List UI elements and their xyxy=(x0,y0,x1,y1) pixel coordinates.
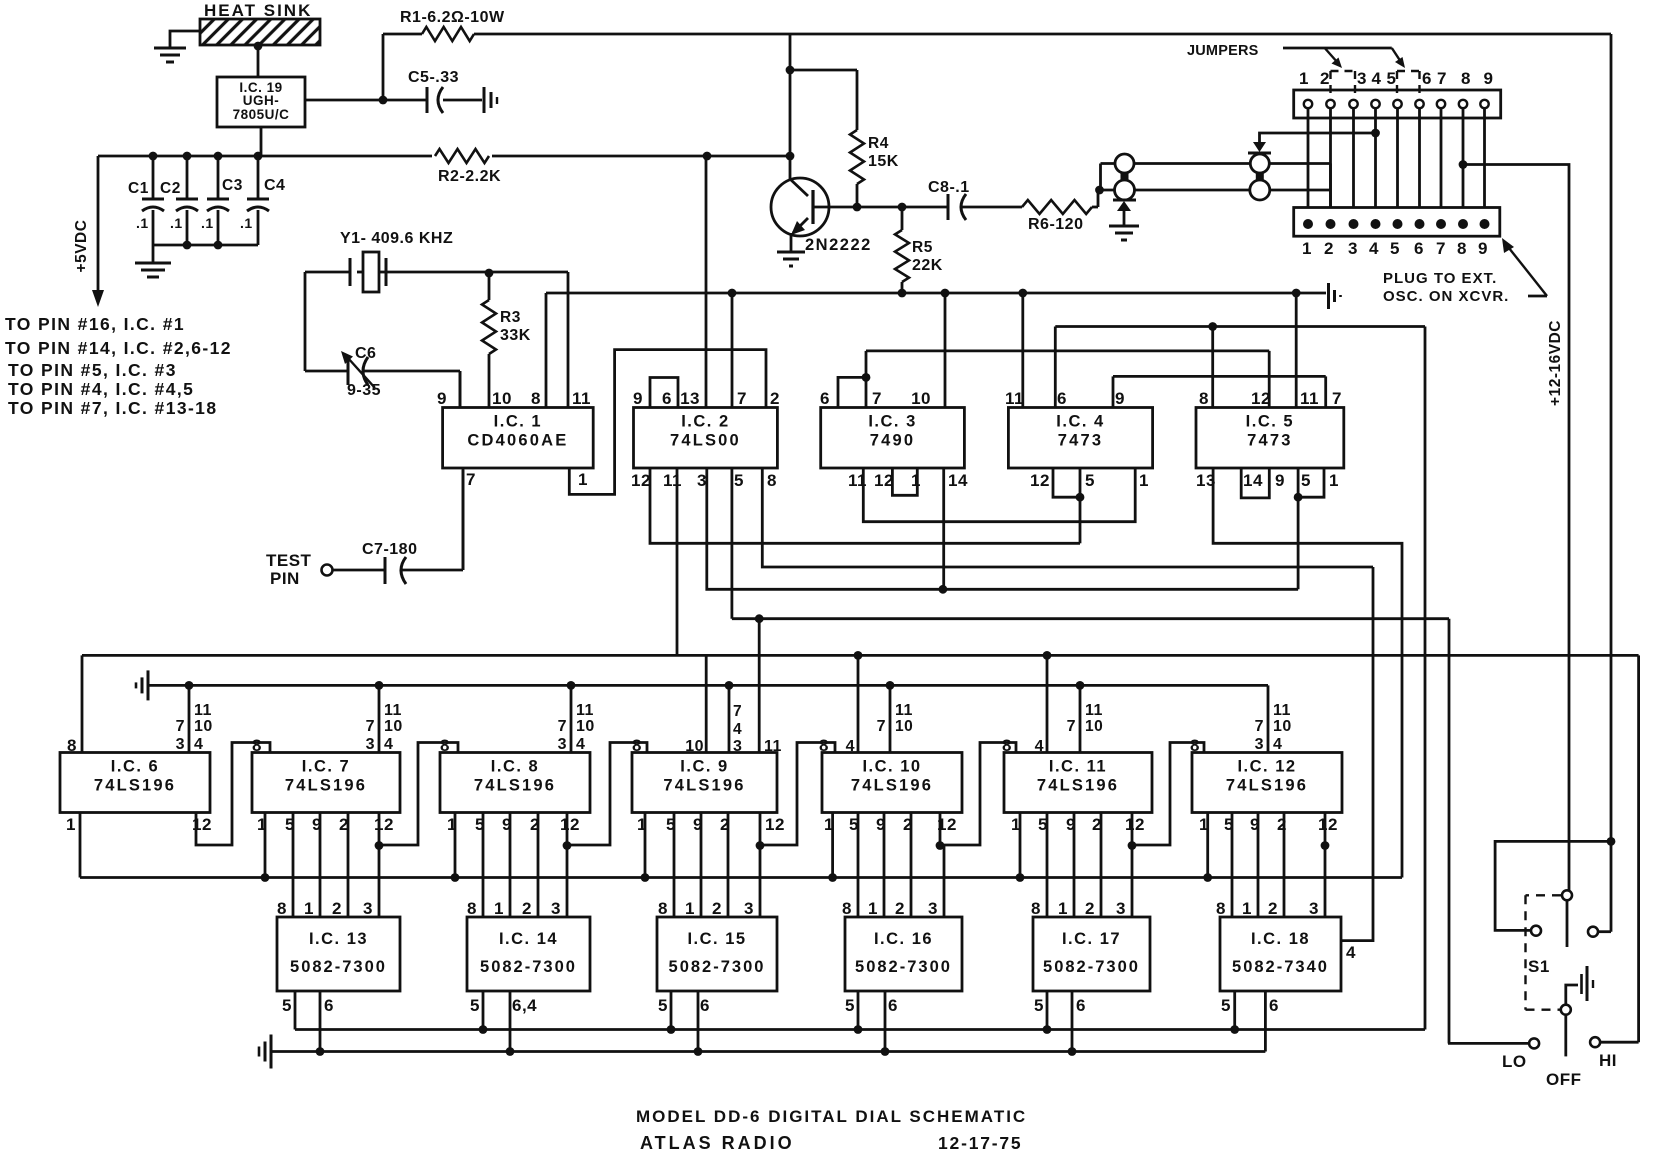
svg-text:UGH-: UGH- xyxy=(243,93,280,108)
svg-text:5: 5 xyxy=(1301,471,1311,490)
svg-text:I.C. 15: I.C. 15 xyxy=(687,930,746,948)
svg-text:+5VDC: +5VDC xyxy=(73,220,90,273)
svg-text:5: 5 xyxy=(1390,239,1400,258)
svg-text:1: 1 xyxy=(1299,69,1309,88)
svg-text:1: 1 xyxy=(1199,815,1209,834)
svg-text:4: 4 xyxy=(1035,738,1044,755)
svg-text:6: 6 xyxy=(888,996,898,1015)
svg-text:11: 11 xyxy=(194,702,212,719)
svg-text:C7-180: C7-180 xyxy=(362,541,417,558)
svg-text:I.C. 9: I.C. 9 xyxy=(680,758,728,776)
svg-text:I.C. 2: I.C. 2 xyxy=(681,413,729,431)
svg-text:1: 1 xyxy=(257,815,267,834)
svg-text:3: 3 xyxy=(363,899,373,918)
svg-text:1: 1 xyxy=(868,899,878,918)
svg-text:8: 8 xyxy=(440,736,450,755)
svg-text:4: 4 xyxy=(1372,69,1382,88)
svg-text:6: 6 xyxy=(662,389,672,408)
svg-text:6: 6 xyxy=(1422,69,1432,88)
svg-text:I.C. 17: I.C. 17 xyxy=(1062,930,1121,948)
svg-text:5: 5 xyxy=(734,471,744,490)
svg-text:R6-120: R6-120 xyxy=(1028,216,1083,233)
svg-text:7: 7 xyxy=(1436,239,1446,258)
svg-text:I.C. 12: I.C. 12 xyxy=(1237,758,1296,776)
svg-text:10: 10 xyxy=(194,718,213,735)
svg-text:5082-7300: 5082-7300 xyxy=(480,958,577,976)
svg-text:7: 7 xyxy=(877,718,886,735)
svg-text:74LS196: 74LS196 xyxy=(663,777,745,795)
svg-text:10: 10 xyxy=(492,389,512,408)
svg-text:.1: .1 xyxy=(201,215,214,231)
svg-text:10: 10 xyxy=(685,738,704,755)
svg-text:8: 8 xyxy=(277,899,287,918)
svg-text:4: 4 xyxy=(733,721,742,738)
svg-text:5: 5 xyxy=(1085,471,1095,490)
svg-text:2: 2 xyxy=(1324,239,1334,258)
svg-text:8: 8 xyxy=(819,736,829,755)
svg-text:8: 8 xyxy=(842,899,852,918)
svg-text:4: 4 xyxy=(384,736,393,753)
svg-text:9: 9 xyxy=(1275,471,1285,490)
svg-text:10: 10 xyxy=(1085,718,1103,735)
svg-text:11: 11 xyxy=(663,471,682,490)
svg-text:8: 8 xyxy=(658,899,668,918)
svg-text:1: 1 xyxy=(578,470,588,489)
svg-text:12: 12 xyxy=(1125,815,1145,834)
svg-text:I.C. 5: I.C. 5 xyxy=(1246,413,1294,431)
svg-text:R4: R4 xyxy=(868,135,889,152)
svg-text:2: 2 xyxy=(1277,815,1287,834)
svg-text:7473: 7473 xyxy=(1058,432,1104,450)
svg-text:.1: .1 xyxy=(240,215,253,231)
svg-text:I.C. 3: I.C. 3 xyxy=(868,413,916,431)
svg-text:6: 6 xyxy=(1076,996,1086,1015)
svg-text:7: 7 xyxy=(737,389,747,408)
svg-text:8: 8 xyxy=(1190,736,1200,755)
svg-text:74LS196: 74LS196 xyxy=(1037,777,1119,795)
svg-text:1: 1 xyxy=(1329,471,1339,490)
svg-text:1: 1 xyxy=(1302,239,1312,258)
svg-text:11: 11 xyxy=(572,389,591,408)
svg-text:PLUG TO EXT.: PLUG TO EXT. xyxy=(1383,270,1497,287)
svg-text:MODEL DD-6 DIGITAL DIAL SC: MODEL DD-6 DIGITAL DIAL SCHEMATIC xyxy=(636,1107,1027,1126)
svg-text:12: 12 xyxy=(631,471,651,490)
svg-text:10: 10 xyxy=(384,718,403,735)
svg-text:2: 2 xyxy=(332,899,342,918)
svg-text:9: 9 xyxy=(1484,69,1494,88)
svg-text:11: 11 xyxy=(764,738,782,755)
svg-text:12-17-75: 12-17-75 xyxy=(938,1133,1022,1153)
svg-text:TO PIN #4, I.C. #4,5: TO PIN #4, I.C. #4,5 xyxy=(8,379,194,399)
svg-text:6: 6 xyxy=(820,389,830,408)
svg-text:1: 1 xyxy=(66,815,76,834)
svg-text:15K: 15K xyxy=(868,153,899,170)
svg-text:I.C. 1: I.C. 1 xyxy=(494,413,542,431)
svg-text:9: 9 xyxy=(1478,239,1488,258)
svg-text:11: 11 xyxy=(895,702,913,719)
svg-text:5: 5 xyxy=(470,996,480,1015)
svg-text:7473: 7473 xyxy=(1247,432,1293,450)
svg-text:3: 3 xyxy=(1116,899,1126,918)
svg-text:3: 3 xyxy=(366,736,375,753)
svg-text:1: 1 xyxy=(637,815,647,834)
svg-text:HI: HI xyxy=(1599,1051,1617,1070)
svg-text:.1: .1 xyxy=(170,215,183,231)
svg-text:12: 12 xyxy=(765,815,785,834)
svg-text:.1: .1 xyxy=(136,215,149,231)
svg-text:JUMPERS: JUMPERS xyxy=(1187,43,1259,59)
svg-text:12: 12 xyxy=(1318,815,1338,834)
svg-text:9: 9 xyxy=(1115,389,1125,408)
svg-text:3: 3 xyxy=(1348,239,1358,258)
svg-text:12: 12 xyxy=(374,815,394,834)
svg-text:2: 2 xyxy=(1268,899,1278,918)
svg-text:7490: 7490 xyxy=(870,432,916,450)
svg-text:7: 7 xyxy=(872,389,882,408)
svg-text:11: 11 xyxy=(384,702,402,719)
svg-text:74LS196: 74LS196 xyxy=(474,777,556,795)
svg-text:C8-.1: C8-.1 xyxy=(928,179,970,196)
svg-text:3: 3 xyxy=(733,738,742,755)
svg-text:C3: C3 xyxy=(222,177,243,194)
svg-text:2N2222: 2N2222 xyxy=(805,236,872,254)
svg-text:8: 8 xyxy=(1002,736,1012,755)
svg-text:R5: R5 xyxy=(912,239,933,256)
svg-text:1: 1 xyxy=(1139,471,1149,490)
svg-text:I.C. 7: I.C. 7 xyxy=(302,758,350,776)
svg-text:5: 5 xyxy=(845,996,855,1015)
svg-text:12: 12 xyxy=(560,815,580,834)
svg-text:7: 7 xyxy=(733,703,742,720)
svg-text:74LS196: 74LS196 xyxy=(285,777,367,795)
svg-text:6: 6 xyxy=(1269,996,1279,1015)
svg-text:R2-2.2K: R2-2.2K xyxy=(438,168,501,185)
svg-text:14: 14 xyxy=(1243,471,1263,490)
svg-text:7: 7 xyxy=(1255,718,1264,735)
svg-text:7: 7 xyxy=(558,718,567,735)
svg-text:1: 1 xyxy=(685,899,695,918)
svg-text:OFF: OFF xyxy=(1546,1070,1582,1089)
svg-text:8: 8 xyxy=(632,736,642,755)
svg-text:3: 3 xyxy=(1309,899,1319,918)
svg-text:10: 10 xyxy=(1273,718,1292,735)
svg-text:8: 8 xyxy=(1199,389,1209,408)
svg-text:12: 12 xyxy=(874,471,894,490)
svg-text:22K: 22K xyxy=(912,257,943,274)
svg-text:11: 11 xyxy=(1085,702,1103,719)
svg-text:6: 6 xyxy=(1057,389,1067,408)
svg-text:74LS196: 74LS196 xyxy=(1226,777,1308,795)
svg-text:5: 5 xyxy=(1221,996,1231,1015)
svg-text:HEAT SINK: HEAT SINK xyxy=(204,1,312,20)
svg-text:1: 1 xyxy=(447,815,457,834)
svg-text:3: 3 xyxy=(744,899,754,918)
svg-text:LO: LO xyxy=(1502,1052,1527,1071)
svg-text:TEST: TEST xyxy=(266,551,312,570)
svg-text:4: 4 xyxy=(194,736,203,753)
svg-text:4: 4 xyxy=(1369,239,1379,258)
svg-text:Y1- 409.6 KHZ: Y1- 409.6 KHZ xyxy=(340,230,453,247)
svg-text:1: 1 xyxy=(1242,899,1252,918)
svg-text:8: 8 xyxy=(1216,899,1226,918)
svg-text:6: 6 xyxy=(700,996,710,1015)
svg-text:7: 7 xyxy=(466,470,476,489)
svg-text:TO PIN #5, I.C. #3: TO PIN #5, I.C. #3 xyxy=(8,360,177,380)
svg-text:S1: S1 xyxy=(1528,957,1550,976)
svg-text:6: 6 xyxy=(324,996,334,1015)
svg-text:74LS196: 74LS196 xyxy=(851,777,933,795)
svg-text:3: 3 xyxy=(1357,69,1367,88)
svg-text:R1-6.2Ω-10W: R1-6.2Ω-10W xyxy=(400,9,505,26)
svg-text:2: 2 xyxy=(1085,899,1095,918)
svg-text:3: 3 xyxy=(551,899,561,918)
svg-text:5082-7340: 5082-7340 xyxy=(1232,958,1329,976)
svg-text:I.C. 16: I.C. 16 xyxy=(874,930,933,948)
svg-text:2: 2 xyxy=(770,389,780,408)
svg-text:1: 1 xyxy=(494,899,504,918)
svg-text:5: 5 xyxy=(1034,996,1044,1015)
svg-text:10: 10 xyxy=(895,718,913,735)
svg-text:12: 12 xyxy=(1030,471,1050,490)
svg-text:6,4: 6,4 xyxy=(512,996,537,1015)
svg-text:8: 8 xyxy=(252,736,262,755)
svg-text:10: 10 xyxy=(576,718,595,735)
svg-text:I.C. 8: I.C. 8 xyxy=(491,758,539,776)
svg-text:11: 11 xyxy=(576,702,594,719)
svg-text:1: 1 xyxy=(1011,815,1021,834)
svg-text:3: 3 xyxy=(176,736,185,753)
svg-text:1: 1 xyxy=(824,815,834,834)
svg-text:6: 6 xyxy=(1414,239,1424,258)
svg-text:7: 7 xyxy=(366,718,375,735)
svg-text:ATLAS RADIO: ATLAS RADIO xyxy=(640,1133,795,1153)
svg-text:7: 7 xyxy=(176,718,185,735)
svg-text:R3: R3 xyxy=(500,309,521,326)
svg-text:OSC. ON XCVR.: OSC. ON XCVR. xyxy=(1383,288,1509,305)
svg-text:5082-7300: 5082-7300 xyxy=(1043,958,1140,976)
svg-text:8: 8 xyxy=(67,736,77,755)
svg-text:TO PIN #7, I.C. #13-18: TO PIN #7, I.C. #13-18 xyxy=(8,398,217,418)
svg-text:C2: C2 xyxy=(160,180,181,197)
svg-text:5082-7300: 5082-7300 xyxy=(290,958,387,976)
svg-text:+12-16VDC: +12-16VDC xyxy=(1547,320,1564,406)
svg-text:7: 7 xyxy=(1067,718,1076,735)
svg-text:14: 14 xyxy=(948,471,968,490)
svg-text:1: 1 xyxy=(304,899,314,918)
svg-text:C4: C4 xyxy=(264,177,285,194)
svg-text:74LS196: 74LS196 xyxy=(94,777,176,795)
svg-text:9-35: 9-35 xyxy=(347,382,381,399)
svg-text:8: 8 xyxy=(1461,69,1471,88)
svg-text:TO PIN #16, I.C. #1: TO PIN #16, I.C. #1 xyxy=(5,314,185,334)
svg-text:12: 12 xyxy=(937,815,957,834)
svg-text:1: 1 xyxy=(1058,899,1068,918)
svg-text:4: 4 xyxy=(846,738,855,755)
svg-text:I.C. 18: I.C. 18 xyxy=(1251,930,1310,948)
svg-text:11: 11 xyxy=(1273,702,1291,719)
svg-text:PIN: PIN xyxy=(270,569,300,588)
svg-text:8: 8 xyxy=(767,471,777,490)
svg-text:2: 2 xyxy=(895,899,905,918)
svg-text:4: 4 xyxy=(576,736,585,753)
svg-text:8: 8 xyxy=(1457,239,1467,258)
svg-text:8: 8 xyxy=(531,389,541,408)
svg-text:12: 12 xyxy=(192,815,212,834)
svg-text:5: 5 xyxy=(282,996,292,1015)
svg-text:I.C. 13: I.C. 13 xyxy=(309,930,368,948)
svg-text:2: 2 xyxy=(712,899,722,918)
svg-text:3: 3 xyxy=(928,899,938,918)
svg-text:11: 11 xyxy=(1300,389,1319,408)
svg-text:I.C. 10: I.C. 10 xyxy=(862,758,921,776)
svg-text:C1: C1 xyxy=(128,180,149,197)
svg-text:8: 8 xyxy=(1031,899,1041,918)
svg-text:4: 4 xyxy=(1273,736,1282,753)
svg-text:7: 7 xyxy=(1332,389,1342,408)
svg-text:CD4060AE: CD4060AE xyxy=(467,432,568,450)
svg-text:9: 9 xyxy=(437,389,447,408)
svg-text:I.C. 4: I.C. 4 xyxy=(1056,413,1104,431)
svg-text:I.C. 14: I.C. 14 xyxy=(499,930,558,948)
svg-text:4: 4 xyxy=(1346,943,1356,962)
svg-text:I.C. 11: I.C. 11 xyxy=(1049,758,1107,776)
svg-text:74LS00: 74LS00 xyxy=(670,432,741,450)
svg-text:3: 3 xyxy=(558,736,567,753)
svg-text:2: 2 xyxy=(1320,69,1330,88)
svg-text:5: 5 xyxy=(658,996,668,1015)
svg-text:7805U/C: 7805U/C xyxy=(233,107,290,122)
svg-text:10: 10 xyxy=(911,389,931,408)
svg-text:33K: 33K xyxy=(500,327,531,344)
svg-text:TO PIN #14, I.C. #2,6-12: TO PIN #14, I.C. #2,6-12 xyxy=(5,338,232,358)
svg-text:2: 2 xyxy=(522,899,532,918)
svg-text:5: 5 xyxy=(1387,69,1397,88)
svg-text:8: 8 xyxy=(467,899,477,918)
svg-text:7: 7 xyxy=(1437,69,1447,88)
svg-text:5082-7300: 5082-7300 xyxy=(855,958,952,976)
svg-text:11: 11 xyxy=(1005,389,1024,408)
svg-text:13: 13 xyxy=(680,389,700,408)
svg-text:3: 3 xyxy=(1255,736,1264,753)
svg-text:I.C. 6: I.C. 6 xyxy=(111,758,159,776)
svg-text:9: 9 xyxy=(633,389,643,408)
svg-text:5082-7300: 5082-7300 xyxy=(669,958,766,976)
svg-text:C5-.33: C5-.33 xyxy=(408,69,459,86)
